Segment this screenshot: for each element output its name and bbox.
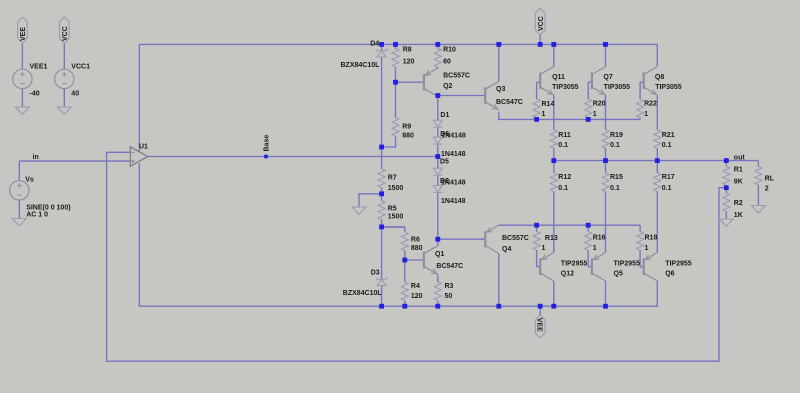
svg-text:BZX84C10L: BZX84C10L <box>341 62 381 69</box>
svg-text:Q3: Q3 <box>496 86 505 93</box>
svg-text:1: 1 <box>542 111 546 118</box>
svg-text:60: 60 <box>443 59 451 66</box>
svg-text:Q8: Q8 <box>655 74 664 81</box>
svg-text:RL: RL <box>765 176 775 183</box>
svg-text:0.1: 0.1 <box>662 142 672 149</box>
svg-text:R19: R19 <box>610 132 623 139</box>
svg-text:1N4148: 1N4148 <box>441 180 466 187</box>
svg-text:VEE: VEE <box>535 318 542 332</box>
svg-text:R9: R9 <box>402 124 411 131</box>
svg-text:R16: R16 <box>593 234 606 241</box>
svg-text:2: 2 <box>765 185 769 192</box>
svg-text:1500: 1500 <box>388 185 404 192</box>
svg-text:Q5: Q5 <box>614 270 623 277</box>
svg-text:Q11: Q11 <box>552 74 565 81</box>
svg-text:Q12: Q12 <box>561 270 574 277</box>
svg-text:R7: R7 <box>388 174 397 181</box>
svg-text:R2: R2 <box>734 200 743 207</box>
svg-text:R1: R1 <box>734 166 743 173</box>
svg-text:out: out <box>734 154 746 161</box>
svg-text:0.1: 0.1 <box>662 185 672 192</box>
svg-text:1N4148: 1N4148 <box>441 151 466 158</box>
svg-text:120: 120 <box>403 59 415 66</box>
svg-text:R10: R10 <box>443 46 456 53</box>
svg-text:R12: R12 <box>558 174 571 181</box>
svg-text:TIP2955: TIP2955 <box>614 261 641 268</box>
svg-text:D1: D1 <box>440 112 449 119</box>
svg-text:VEE1: VEE1 <box>30 64 48 71</box>
svg-text:TIP2955: TIP2955 <box>561 261 588 268</box>
svg-text:880: 880 <box>411 245 423 252</box>
svg-text:R20: R20 <box>593 101 606 108</box>
svg-text:Q2: Q2 <box>443 83 452 90</box>
svg-text:BC557C: BC557C <box>443 72 470 79</box>
svg-text:BC557C: BC557C <box>502 235 529 242</box>
svg-text:R15: R15 <box>610 174 623 181</box>
svg-text:Base: Base <box>263 135 270 152</box>
svg-text:Q6: Q6 <box>665 270 674 277</box>
svg-text:VEE: VEE <box>20 27 27 41</box>
svg-text:TIP2955: TIP2955 <box>665 261 692 268</box>
svg-text:50: 50 <box>445 293 453 300</box>
svg-text:0.1: 0.1 <box>610 142 620 149</box>
svg-text:R6: R6 <box>411 236 420 243</box>
svg-text:1N4148: 1N4148 <box>441 133 466 140</box>
svg-text:9K: 9K <box>734 178 743 185</box>
svg-text:R17: R17 <box>662 174 675 181</box>
svg-text:0.1: 0.1 <box>558 185 568 192</box>
svg-text:VCC: VCC <box>538 16 545 31</box>
svg-text:TIP3055: TIP3055 <box>604 84 631 91</box>
svg-text:-40: -40 <box>30 91 40 98</box>
svg-text:VCC: VCC <box>62 26 69 41</box>
svg-text:R4: R4 <box>411 283 420 290</box>
svg-text:R13: R13 <box>545 235 558 242</box>
svg-text:BC547C: BC547C <box>496 99 523 106</box>
svg-text:AC 1 0: AC 1 0 <box>26 211 48 218</box>
svg-text:TIP3055: TIP3055 <box>552 84 579 91</box>
svg-text:120: 120 <box>411 293 423 300</box>
svg-text:1: 1 <box>645 245 649 252</box>
svg-text:1: 1 <box>644 111 648 118</box>
svg-text:1500: 1500 <box>388 213 404 220</box>
svg-text:1K: 1K <box>734 212 743 219</box>
svg-text:Vs: Vs <box>25 177 34 184</box>
svg-text:D4: D4 <box>370 40 379 47</box>
svg-text:1: 1 <box>593 245 597 252</box>
svg-text:Q4: Q4 <box>502 246 511 253</box>
svg-text:D3: D3 <box>371 270 380 277</box>
svg-text:Q1: Q1 <box>435 251 444 258</box>
svg-text:880: 880 <box>402 132 414 139</box>
svg-text:1N4148: 1N4148 <box>441 198 466 205</box>
svg-text:1: 1 <box>542 245 546 252</box>
svg-text:TIP3055: TIP3055 <box>655 84 682 91</box>
svg-text:in: in <box>33 154 39 161</box>
svg-text:D5: D5 <box>440 159 449 166</box>
svg-text:R3: R3 <box>445 283 454 290</box>
svg-text:R22: R22 <box>644 101 657 108</box>
svg-text:Q7: Q7 <box>603 74 612 81</box>
svg-text:0.1: 0.1 <box>558 142 568 149</box>
svg-text:1: 1 <box>593 111 597 118</box>
svg-text:BZX84C10L: BZX84C10L <box>343 290 383 297</box>
svg-text:R5: R5 <box>388 205 397 212</box>
svg-text:R11: R11 <box>558 132 571 139</box>
svg-text:R14: R14 <box>542 101 555 108</box>
svg-text:BC547C: BC547C <box>436 263 463 270</box>
svg-text:U1: U1 <box>139 144 148 151</box>
svg-text:0.1: 0.1 <box>610 185 620 192</box>
svg-text:R8: R8 <box>403 46 412 53</box>
svg-text:R18: R18 <box>645 234 658 241</box>
svg-text:VCC1: VCC1 <box>71 64 90 71</box>
svg-text:R21: R21 <box>662 132 675 139</box>
svg-text:40: 40 <box>71 91 79 98</box>
